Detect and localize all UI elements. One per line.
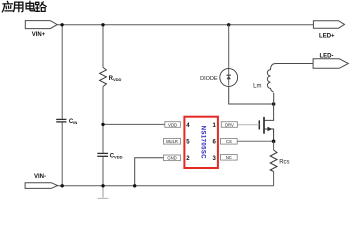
wire Cvdd to bottom rail (102, 157, 104, 186)
svg-text:DRV: DRV (225, 122, 234, 127)
capacitor CVDD (97, 153, 122, 159)
wire bottom rail VIN- to Rcs (58, 185, 274, 187)
svg-text:NC: NC (226, 155, 232, 160)
connector VIN+ (25, 21, 57, 39)
wire top rail VIN+ to LED+ (57, 24, 313, 26)
wire Rvdd to Cvdd (102, 87, 104, 153)
resistor Rcs (270, 141, 289, 186)
svg-text:LED+: LED+ (319, 33, 335, 39)
svg-text:NS1705SC: NS1705SC (200, 126, 206, 159)
wire Rvdd column top (102, 25, 104, 68)
wire LED- to inductor (276, 63, 313, 65)
node dot top rail Rvdd (101, 23, 104, 26)
node dot switch node (272, 102, 276, 106)
title 应用电路 (2, 1, 46, 12)
op-amp U1 NS1705SC body (184, 117, 218, 168)
wire DRV to gate (237, 124, 259, 126)
svg-text:GND: GND (167, 156, 176, 161)
node dot bottom rail GND (133, 184, 136, 187)
node dot bottom rail Cvdd (101, 184, 104, 187)
svg-text:LED-: LED- (320, 53, 334, 59)
wire Cin column lower (61, 122, 63, 185)
diode D1 (200, 25, 273, 104)
node dot top rail diode (227, 23, 230, 26)
node dot VDD tap (101, 123, 104, 126)
svg-text:MULR: MULR (166, 139, 178, 144)
wire VDD pin (103, 123, 165, 125)
svg-text:CS: CS (226, 139, 232, 144)
node dot top rail Cin (60, 23, 63, 26)
pin box DRV (221, 122, 237, 128)
pin box VDD (165, 122, 181, 128)
svg-text:Lm: Lm (253, 83, 261, 89)
pin box NC (221, 155, 238, 161)
svg-text:CIN: CIN (69, 119, 77, 125)
pin box CS (221, 139, 238, 145)
connector LED- (313, 53, 348, 68)
wire CS to source (237, 140, 273, 142)
svg-text:VDD: VDD (168, 122, 177, 127)
resistor RVDD (100, 67, 122, 86)
svg-text:CVDD: CVDD (110, 153, 123, 159)
pin box GND (164, 155, 181, 161)
svg-text:DIODE: DIODE (200, 76, 218, 82)
wire GND pin (135, 158, 164, 186)
connector VIN- (25, 174, 58, 188)
inductor Lm (253, 64, 276, 105)
svg-text:Rcs: Rcs (279, 160, 289, 166)
pin box MULR (164, 139, 181, 145)
node dot source (272, 140, 276, 144)
connector LED+ (313, 21, 344, 40)
ground stub below rail (102, 186, 104, 198)
svg-text:VIN+: VIN+ (32, 32, 46, 38)
svg-text:VIN-: VIN- (34, 174, 46, 180)
transistor Q1 nmos (259, 104, 273, 141)
capacitor CIN (56, 119, 77, 125)
svg-text:RVDD: RVDD (109, 76, 122, 82)
node dot bottom rail Cin (61, 184, 64, 187)
wire Cin column upper (61, 25, 63, 119)
